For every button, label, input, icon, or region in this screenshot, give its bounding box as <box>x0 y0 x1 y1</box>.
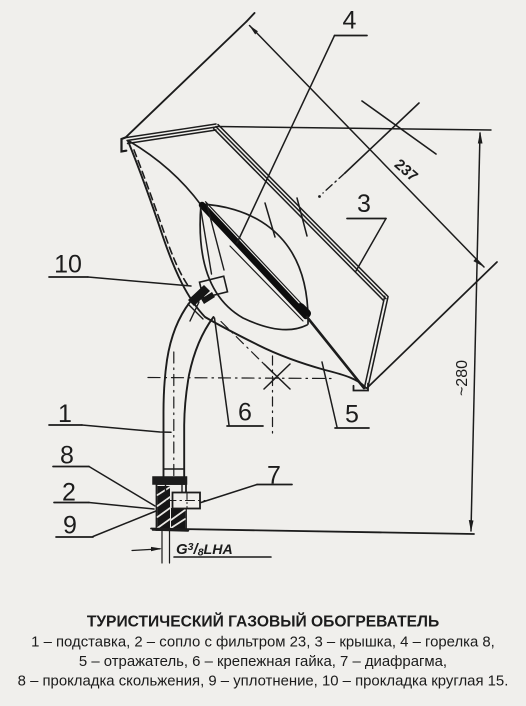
label 3 leader <box>347 218 386 220</box>
label 8 leader <box>53 466 89 468</box>
svg-text:1: 1 <box>58 400 72 428</box>
pipe centerline vertical <box>173 352 175 476</box>
cover top-left edge <box>126 22 247 138</box>
label 10 leader <box>49 276 88 278</box>
label 6 leader <box>227 425 263 427</box>
label 4 leader <box>335 35 368 37</box>
reflector hidden arc (dashed) <box>134 150 189 287</box>
base flange <box>153 477 187 484</box>
base block packing (black hatch left) <box>158 486 186 529</box>
packing white slits <box>158 487 186 528</box>
arrow at right vertex <box>473 258 484 267</box>
horizontal extension line <box>217 127 491 131</box>
burner port tick A <box>265 203 275 237</box>
stand pipe left edge <box>164 302 191 477</box>
svg-text:5 – отражатель, 6 – крепежная: 5 – отражатель, 6 – крепежная гайка, 7 –… <box>79 654 447 670</box>
thread dim extension lines <box>161 531 163 563</box>
round gasket (black) <box>188 285 210 306</box>
rim corner hook <box>122 138 127 152</box>
stand pipe right edge <box>184 317 213 477</box>
svg-text:~280: ~280 <box>454 360 471 396</box>
pipe centerline diagonal <box>221 322 273 374</box>
tube coupling line <box>164 468 184 470</box>
cover far edge to right vertex <box>367 262 497 388</box>
svg-text:8 – прокладка скольжения, 9 –: 8 – прокладка скольжения, 9 – уплотнение… <box>18 674 509 690</box>
diaphragm <box>173 493 201 509</box>
reflector rim strip (left) <box>127 124 217 144</box>
svg-text:8: 8 <box>60 442 74 470</box>
centerline vertical below X <box>272 356 274 433</box>
fixing nut <box>200 276 228 298</box>
svg-text:G3/8LHA: G3/8LHA <box>176 541 233 559</box>
reflector upper silhouette to nozzle <box>129 141 201 205</box>
label 5 leader <box>335 427 369 429</box>
svg-text:10: 10 <box>54 251 82 279</box>
label 2 leader <box>54 502 89 504</box>
reflector silhouette arc <box>128 141 366 388</box>
label 1 leader <box>49 424 82 426</box>
burner tube thin continuation <box>307 317 364 388</box>
tube wall stubs in base <box>165 485 167 493</box>
thread label underline <box>174 556 271 558</box>
junction cross mark <box>188 304 203 319</box>
dimension 237 line <box>250 26 485 268</box>
svg-text:7: 7 <box>267 462 281 490</box>
base bottom <box>153 530 188 531</box>
base block outline <box>157 484 187 530</box>
burner tube lower thin line <box>230 246 303 321</box>
vertical dimension ~280 line <box>471 133 480 531</box>
center X mark <box>264 364 290 389</box>
svg-text:2: 2 <box>62 479 76 507</box>
burner tube (thick) <box>202 205 306 316</box>
svg-text:3: 3 <box>357 190 371 218</box>
diaphragm centerline <box>167 500 205 502</box>
nozzle cone left <box>201 208 212 275</box>
X break mark arm 1 <box>362 101 436 154</box>
burner housing upper arc <box>201 204 308 324</box>
nozzle cone right <box>207 203 225 270</box>
svg-text:5: 5 <box>345 401 359 429</box>
burner tube upper thin line <box>206 202 305 307</box>
svg-text:6: 6 <box>238 399 252 427</box>
svg-text:4: 4 <box>343 7 357 35</box>
cover bottom foot <box>354 384 369 391</box>
burner port tick B <box>297 198 307 236</box>
cover edge strip (upper right) <box>214 125 388 301</box>
cover edge strip (lower right) <box>365 296 388 387</box>
diaphragm tick <box>186 494 188 508</box>
arrow at apex <box>249 25 258 35</box>
burner tube step <box>301 308 307 314</box>
cover apex stub <box>247 13 255 22</box>
svg-text:ТУРИСТИЧЕСКИЙ ГАЗОВЫЙ ОБОГРЕВА: ТУРИСТИЧЕСКИЙ ГАЗОВЫЙ ОБОГРЕВАТЕЛЬ <box>87 612 439 631</box>
svg-text:9: 9 <box>63 512 77 540</box>
centerline horizontal <box>148 378 333 379</box>
svg-text:1 – подставка, 2 – сопло с фил: 1 – подставка, 2 – сопло с фильтром 23, … <box>31 635 495 651</box>
label 9 leader <box>56 536 93 538</box>
X break mark arm 2 with dash-dot tail <box>345 103 419 173</box>
ground line <box>151 529 474 535</box>
label 7 leader <box>257 484 292 486</box>
thread dim arrow <box>132 549 160 551</box>
burner housing lower arc <box>200 204 307 330</box>
